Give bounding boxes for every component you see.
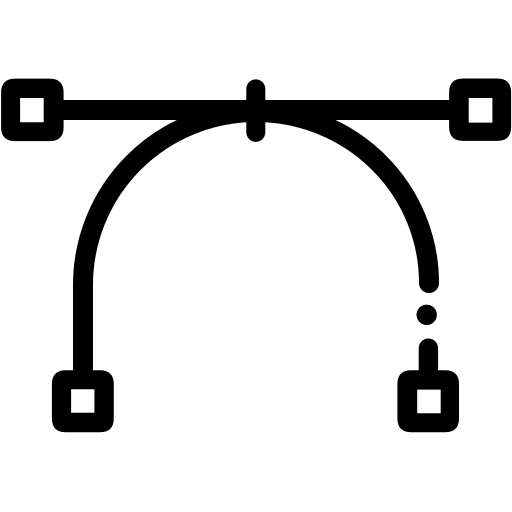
node: center control handle capsule [246,89,265,132]
wire: bezier arch from bottom-left anchor over the top to right cap [83,112,429,371]
node B: top-right anchor square [449,79,511,141]
node: dash dot below right arc end [417,305,437,325]
node A: top-left anchor square [1,79,64,142]
wire: horizontal control line between top anchors [58,100,454,120]
node C: bottom-left anchor square [52,370,114,432]
wire: dashed stub into bottom-right anchor [419,348,438,376]
node D: bottom-right anchor square [397,370,459,432]
